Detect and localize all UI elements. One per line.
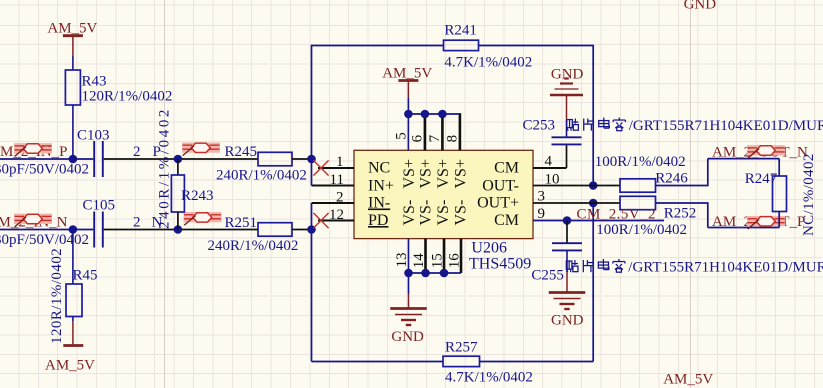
svg-text:R252: R252: [664, 206, 697, 222]
junction IN+ feedback node: [307, 155, 316, 164]
IC pin name VS+ (column 3): [435, 159, 452, 188]
pin number 10: [545, 172, 560, 188]
junction pin 5 bus: [404, 110, 413, 119]
power port AM_5V (bottom left): [45, 317, 95, 374]
value label R247 NC/1%/0402 (rotated): [801, 153, 817, 236]
IC pin name VS+ (column 2): [418, 159, 435, 188]
wire OUT+ vertical feedback drop: [592, 203, 594, 362]
svg-text:R245: R245: [225, 144, 258, 160]
svg-text:3: 3: [538, 189, 546, 205]
pin 3 OUT+ stub: [533, 202, 620, 204]
svg-text:100R/1%/0402: 100R/1%/0402: [596, 222, 687, 238]
wire R43 to node P: [72, 105, 74, 159]
pin 7: [441, 114, 444, 150]
svg-text:GND: GND: [551, 313, 584, 329]
svg-text:1: 1: [336, 154, 344, 170]
wire port N to C105: [0, 229, 93, 231]
wire pin 4 up to C253: [566, 145, 568, 168]
svg-text:AM_5V: AM_5V: [45, 358, 95, 374]
value label R246 100R/1%/0402: [595, 154, 686, 170]
wire port P to C103: [0, 158, 93, 160]
junction OUT+ / R257: [589, 199, 598, 208]
svg-text:NC/1%/0402: NC/1%/0402: [801, 153, 817, 236]
svg-text:C105: C105: [83, 198, 116, 214]
IC pin name VS+ (column 4): [453, 159, 470, 188]
svg-text:U206: U206: [471, 240, 507, 257]
differential pair directive (wire N): [184, 213, 222, 226]
port AM_2_OUT_N: [712, 145, 808, 161]
net label GND (top right, clipped): [684, 0, 717, 13]
differential pair directive (wire P): [182, 143, 220, 156]
junction pin 6 bus: [421, 110, 430, 119]
pin 10 OUT- stub: [533, 185, 620, 187]
junction pin 14 bus: [421, 269, 430, 278]
svg-text:2: 2: [133, 144, 141, 160]
pin 2 label and net label N: [133, 215, 163, 231]
capacitor C105: [83, 198, 116, 248]
wire OUT- vertical feedback riser: [592, 45, 594, 186]
svg-text:OUT+: OUT+: [477, 195, 519, 212]
svg-text:2: 2: [336, 190, 344, 206]
pin number 14: [411, 253, 427, 269]
svg-text:CM: CM: [494, 212, 519, 229]
svg-text:GND: GND: [684, 0, 717, 13]
junction node P / R43: [69, 155, 78, 164]
ground symbol (above C253, flipped): [550, 79, 583, 96]
svg-text:11: 11: [330, 172, 344, 188]
resistor R252: [620, 196, 696, 221]
value label R241 4.7K/1%/0402: [444, 55, 532, 71]
designator U206: [471, 240, 507, 257]
svg-text:R241: R241: [444, 23, 477, 39]
capacitor C255: [531, 243, 582, 283]
GND label (below C255): [551, 313, 584, 329]
svg-text:OUT-: OUT-: [482, 178, 519, 195]
net label AM_5V (bottom right, clipped): [663, 372, 713, 388]
svg-text:8: 8: [445, 135, 461, 143]
svg-text:R247: R247: [745, 171, 778, 187]
IC pin name CM (pin 9): [494, 212, 519, 229]
value label C105 30pF/50V/0402: [0, 232, 89, 248]
svg-text:VS+: VS+: [435, 159, 452, 188]
resistor R251: [225, 215, 293, 236]
svg-text:IN-: IN-: [368, 195, 390, 212]
svg-text:16: 16: [446, 253, 462, 269]
differential pair directive (port P): [14, 144, 52, 157]
svg-text:R246: R246: [655, 171, 688, 187]
junction IN- feedback node: [307, 225, 316, 234]
capacitor C103: [77, 128, 110, 178]
svg-text:4.7K/1%/0402: 4.7K/1%/0402: [444, 55, 532, 71]
pin number 2: [336, 190, 344, 206]
junction OUT- / R241: [589, 181, 598, 190]
wire top feedback run (right of R241): [479, 45, 594, 47]
svg-text:100R/1%/0402: 100R/1%/0402: [595, 154, 686, 170]
svg-text:VS-: VS-: [418, 200, 435, 226]
wire IN- vertical feedback drop: [311, 203, 313, 362]
value label C253 chip capacitor: [567, 118, 823, 135]
svg-text:GND: GND: [391, 329, 424, 345]
svg-text:13: 13: [394, 253, 410, 268]
svg-text:30pF/50V/0402: 30pF/50V/0402: [0, 162, 89, 178]
resistor R43: [65, 70, 106, 105]
value label R45 120R/1%/0402 (rotated): [49, 248, 65, 344]
svg-text:C255: C255: [531, 268, 564, 284]
svg-text:VS+: VS+: [401, 159, 418, 188]
pin number 13: [394, 253, 410, 268]
pin 16: [460, 239, 463, 273]
svg-text:CM: CM: [494, 160, 519, 177]
differential pair directive (port OUT_P): [747, 217, 785, 230]
differential pair directive (port N): [14, 214, 52, 227]
resistor R241: [444, 23, 479, 51]
svg-text:120R/1%/0402: 120R/1%/0402: [49, 248, 65, 344]
pin 11 IN+ stub: [312, 185, 355, 187]
svg-text:4: 4: [545, 154, 553, 170]
svg-text:14: 14: [411, 253, 427, 269]
pin number 15: [429, 253, 445, 268]
ground symbol (below IC): [390, 309, 427, 326]
wire VS- bus: [409, 272, 462, 274]
IC pin name VS- (column 2): [418, 200, 435, 226]
svg-text:240R/1%/0402: 240R/1%/0402: [208, 238, 299, 254]
wire R245 to IN+ node: [292, 158, 312, 160]
svg-text:R257: R257: [445, 340, 478, 356]
svg-text:THS4509: THS4509: [469, 256, 531, 273]
svg-text:C253: C253: [523, 118, 556, 134]
value label R252 100R/1%/0402: [596, 222, 687, 238]
pin 4 CM stub: [533, 167, 567, 169]
svg-text:CM_2.5V_2: CM_2.5V_2: [577, 207, 656, 223]
wire R252 to port OUT_P: [656, 202, 780, 227]
svg-text:2: 2: [133, 215, 141, 231]
resistor R247: [745, 159, 787, 228]
pin number 5: [393, 132, 409, 140]
svg-text:R45: R45: [73, 268, 98, 284]
pin 13 wire: [408, 239, 410, 273]
svg-text:AM_5V: AM_5V: [47, 21, 97, 37]
svg-text:5: 5: [393, 132, 409, 140]
svg-text:240R/1%/0402: 240R/1%/0402: [216, 168, 307, 184]
svg-text:VS+: VS+: [453, 159, 470, 188]
pin number 12: [329, 207, 344, 223]
resistor R246: [620, 171, 688, 193]
GND label (below IC): [391, 329, 424, 345]
value label R43 120R/1%/0402: [82, 89, 173, 105]
IC pin name IN- (active low): [368, 195, 390, 212]
svg-text:4.7K/1%/0402: 4.7K/1%/0402: [445, 370, 533, 386]
pin 2 label and net label P: [133, 144, 161, 160]
IC pin name IN+: [368, 178, 394, 195]
wire R251 to IN- node: [292, 229, 312, 231]
junction P / R243: [174, 155, 183, 164]
IC pin name VS- (column 4): [453, 200, 470, 226]
svg-text:VS-: VS-: [453, 200, 470, 226]
value label C103 30pF/50V/0402: [0, 162, 89, 178]
wire C103 to R245: [104, 158, 258, 160]
resistor R257: [443, 340, 480, 367]
value label R245 240R/1%/0402: [216, 168, 307, 184]
comment THS4509: [469, 256, 531, 273]
svg-text:NC: NC: [368, 160, 390, 177]
svg-text:10: 10: [545, 172, 560, 188]
pin number 1: [336, 154, 344, 170]
pin number 7: [427, 134, 443, 142]
wire C105 to R251: [104, 229, 258, 231]
svg-text:C103: C103: [77, 128, 110, 144]
junction pin 13 bus: [404, 269, 413, 278]
pin 15: [443, 239, 446, 273]
svg-text:7: 7: [427, 134, 443, 142]
svg-text:GND: GND: [551, 67, 584, 83]
GND label (top): [551, 67, 584, 83]
IC pin name NC: [368, 160, 390, 177]
svg-text:/GRT155R71H104KE01D/MURATA: /GRT155R71H104KE01D/MURATA: [628, 260, 823, 276]
pin number 9: [538, 206, 546, 222]
svg-text:15: 15: [429, 253, 445, 268]
svg-text:IN+: IN+: [368, 178, 394, 195]
svg-text:R251: R251: [225, 215, 258, 231]
differential pair directive (port OUT_N): [747, 146, 785, 159]
pin number 3: [538, 189, 546, 205]
pin number 4: [545, 154, 553, 170]
svg-text:6: 6: [410, 134, 426, 142]
power port AM_5V (above IC): [382, 66, 432, 99]
ground symbol (below C255): [549, 293, 586, 310]
wire R246 to port OUT_N: [656, 159, 780, 187]
resistor R243: [171, 159, 213, 230]
svg-text:R243: R243: [181, 188, 214, 204]
wire bottom feedback run (left of R257): [312, 361, 444, 363]
svg-text:PD: PD: [368, 212, 388, 229]
op-amp U206 THS4509 body: [354, 150, 533, 238]
value label C255 chip capacitor: [566, 259, 823, 276]
svg-text:VS+: VS+: [418, 159, 435, 188]
junction pin 15 bus: [440, 269, 449, 278]
wire C253 up to GND: [566, 96, 568, 138]
resistor R245: [225, 144, 293, 166]
IC pin name PD (active low): [368, 212, 388, 229]
svg-text:R43: R43: [82, 74, 107, 90]
svg-text:9: 9: [538, 206, 546, 222]
wire AM_5V to R43: [72, 56, 74, 70]
port AM_2_OUT_P: [712, 214, 805, 230]
IC pin name OUT-: [482, 178, 519, 195]
svg-text:12: 12: [329, 207, 344, 223]
svg-text:AM_5V: AM_5V: [663, 372, 713, 388]
svg-text:240R/1%/0402: 240R/1%/0402: [157, 107, 173, 229]
wire top feedback run (left of R241): [312, 45, 444, 47]
wire pin 9 down to C255: [566, 221, 568, 244]
wire C255 down to GND: [566, 251, 568, 292]
capacitor C253: [523, 118, 582, 145]
pin number 6: [410, 134, 426, 142]
pin number 8: [445, 135, 461, 143]
pin 5 wire: [407, 114, 409, 150]
IC pin name VS+ (column 1): [401, 159, 418, 188]
IC pin name VS- (column 3): [435, 200, 452, 226]
net label CM_2.5V_2: [577, 207, 656, 223]
wire IN+ vertical feedback riser: [311, 45, 313, 186]
port AM_2_IN_N (left edge): [0, 215, 68, 231]
IC pin name CM (pin 4): [494, 160, 519, 177]
wire bottom feedback run (right of R257): [480, 361, 594, 363]
junction N / R243: [174, 225, 183, 234]
svg-text:VS-: VS-: [435, 200, 452, 226]
wire AM_5V down to VS+ bus: [407, 98, 409, 114]
IC pin name OUT+: [477, 195, 519, 212]
value label R257 4.7K/1%/0402: [445, 370, 533, 386]
pin number 11: [330, 172, 344, 188]
pin 1 NC stub with no-ERC cross: [313, 160, 354, 175]
svg-text:VS-: VS-: [401, 200, 418, 226]
value label R243 240R/1%/0402 (rotated): [157, 107, 173, 229]
junction pin 7 bus: [438, 110, 447, 119]
svg-text:30pF/50V/0402: 30pF/50V/0402: [0, 232, 89, 248]
svg-text:120R/1%/0402: 120R/1%/0402: [82, 89, 173, 105]
power port AM_5V (top left): [47, 21, 97, 57]
wire bus to GND: [408, 273, 410, 308]
junction node N / R45: [69, 225, 78, 234]
pin 2 IN- stub: [312, 202, 355, 204]
pin 9 CM stub: [533, 220, 664, 222]
port AM_2_IN_P (left edge): [0, 144, 68, 160]
value label R251 240R/1%/0402: [208, 238, 299, 254]
svg-text:/GRT155R71H104KE01D/MURATA: /GRT155R71H104KE01D/MURATA: [629, 118, 823, 134]
pin 6: [424, 114, 427, 150]
junction pin 9 / C255: [563, 216, 572, 225]
resistor R45: [66, 230, 98, 317]
pin 14: [424, 239, 427, 273]
IC pin name VS- (column 1): [401, 200, 418, 226]
wire VS+ bus: [408, 113, 460, 150]
pin number 16: [446, 253, 462, 269]
pin 12 PD stub with no-ERC cross: [313, 213, 354, 228]
